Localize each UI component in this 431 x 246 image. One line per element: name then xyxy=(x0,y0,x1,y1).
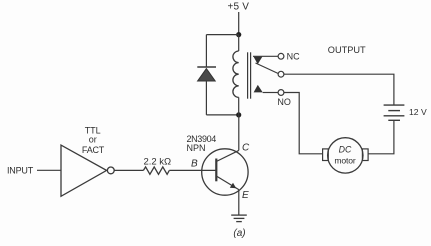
junction top node xyxy=(236,32,241,37)
wire collector up to junction xyxy=(238,115,240,150)
label E xyxy=(242,190,249,201)
label NC xyxy=(287,52,300,62)
svg-text:+5 V: +5 V xyxy=(227,1,249,12)
svg-text:or: or xyxy=(89,135,97,145)
wire resistor to base xyxy=(169,169,215,171)
svg-text:12 V: 12 V xyxy=(409,107,427,117)
ground xyxy=(231,215,247,222)
svg-text:NPN: NPN xyxy=(187,143,206,153)
relay NC terminal circle xyxy=(278,53,284,59)
svg-text:E: E xyxy=(242,190,249,201)
svg-text:INPUT: INPUT xyxy=(7,166,34,176)
relay coil K1 xyxy=(233,51,239,97)
label NO xyxy=(277,97,291,107)
label 2.2 kOhm xyxy=(143,157,171,168)
wire bubble to resistor xyxy=(114,169,143,171)
label INPUT xyxy=(7,166,34,176)
wire INPUT to inverter xyxy=(37,169,61,171)
svg-text:B: B xyxy=(191,159,198,170)
label TTL or FACT xyxy=(82,125,105,155)
motor left brush xyxy=(323,149,329,161)
wire common contact to battery top xyxy=(284,74,394,104)
inverter output bubble xyxy=(107,167,114,174)
label OUTPUT xyxy=(328,45,366,55)
label DC motor xyxy=(334,144,356,165)
label (a) xyxy=(233,228,245,239)
wire from +5V down to junction xyxy=(238,12,240,35)
svg-text:motor: motor xyxy=(334,155,356,165)
op-amp U1 inverter triangle (TTL/FACT gate) xyxy=(61,145,107,196)
label B xyxy=(191,159,198,170)
junction bottom node xyxy=(236,112,241,117)
motor right brush xyxy=(362,149,368,161)
svg-text:(a): (a) xyxy=(233,228,245,239)
wire coil bottom to junction xyxy=(238,97,240,115)
svg-text:FACT: FACT xyxy=(82,145,105,155)
transistor base bar xyxy=(215,159,217,182)
label C xyxy=(242,142,250,153)
transistor Q1 2N3904 body circle xyxy=(202,149,248,195)
wire NO contact to motor left brush xyxy=(284,93,323,154)
diode D1 flyback (cathode bar up) xyxy=(197,67,216,81)
svg-text:DC: DC xyxy=(339,144,352,154)
wire battery bottom to motor right brush xyxy=(368,120,394,154)
wire emitter down to ground xyxy=(238,190,240,216)
label 2N3904 NPN xyxy=(187,134,217,153)
relay armature (common pole arm) xyxy=(256,63,279,74)
svg-text:2.2 kΩ: 2.2 kΩ xyxy=(143,157,171,168)
motor M1 body circle xyxy=(328,138,363,173)
resistor R1 2.2 kohm zigzag xyxy=(143,167,169,174)
node +5 V supply label xyxy=(227,1,249,12)
transistor emitter stroke with arrow xyxy=(216,176,239,190)
relay core lines xyxy=(248,52,251,98)
wire diode branch upper vertical xyxy=(205,35,207,67)
svg-text:NC: NC xyxy=(287,52,300,62)
label 12 V xyxy=(409,107,427,117)
wire bottom horizontal from diode to coil line xyxy=(206,114,238,116)
relay NO terminal circle xyxy=(278,90,284,96)
relay NO fixed contact (up triangle + line) xyxy=(254,85,279,93)
transistor collector stroke xyxy=(216,150,239,161)
wire diode branch lower vertical xyxy=(205,81,207,115)
relay NC fixed contact (line + down triangle) xyxy=(253,56,278,64)
svg-text:C: C xyxy=(242,142,250,153)
relay common terminal circle xyxy=(278,71,284,77)
svg-text:NO: NO xyxy=(277,97,291,107)
wire top horizontal to diode branch xyxy=(206,34,238,36)
wire junction to coil top xyxy=(238,35,240,51)
battery BT1 12V xyxy=(384,105,405,120)
svg-text:OUTPUT: OUTPUT xyxy=(328,45,366,55)
